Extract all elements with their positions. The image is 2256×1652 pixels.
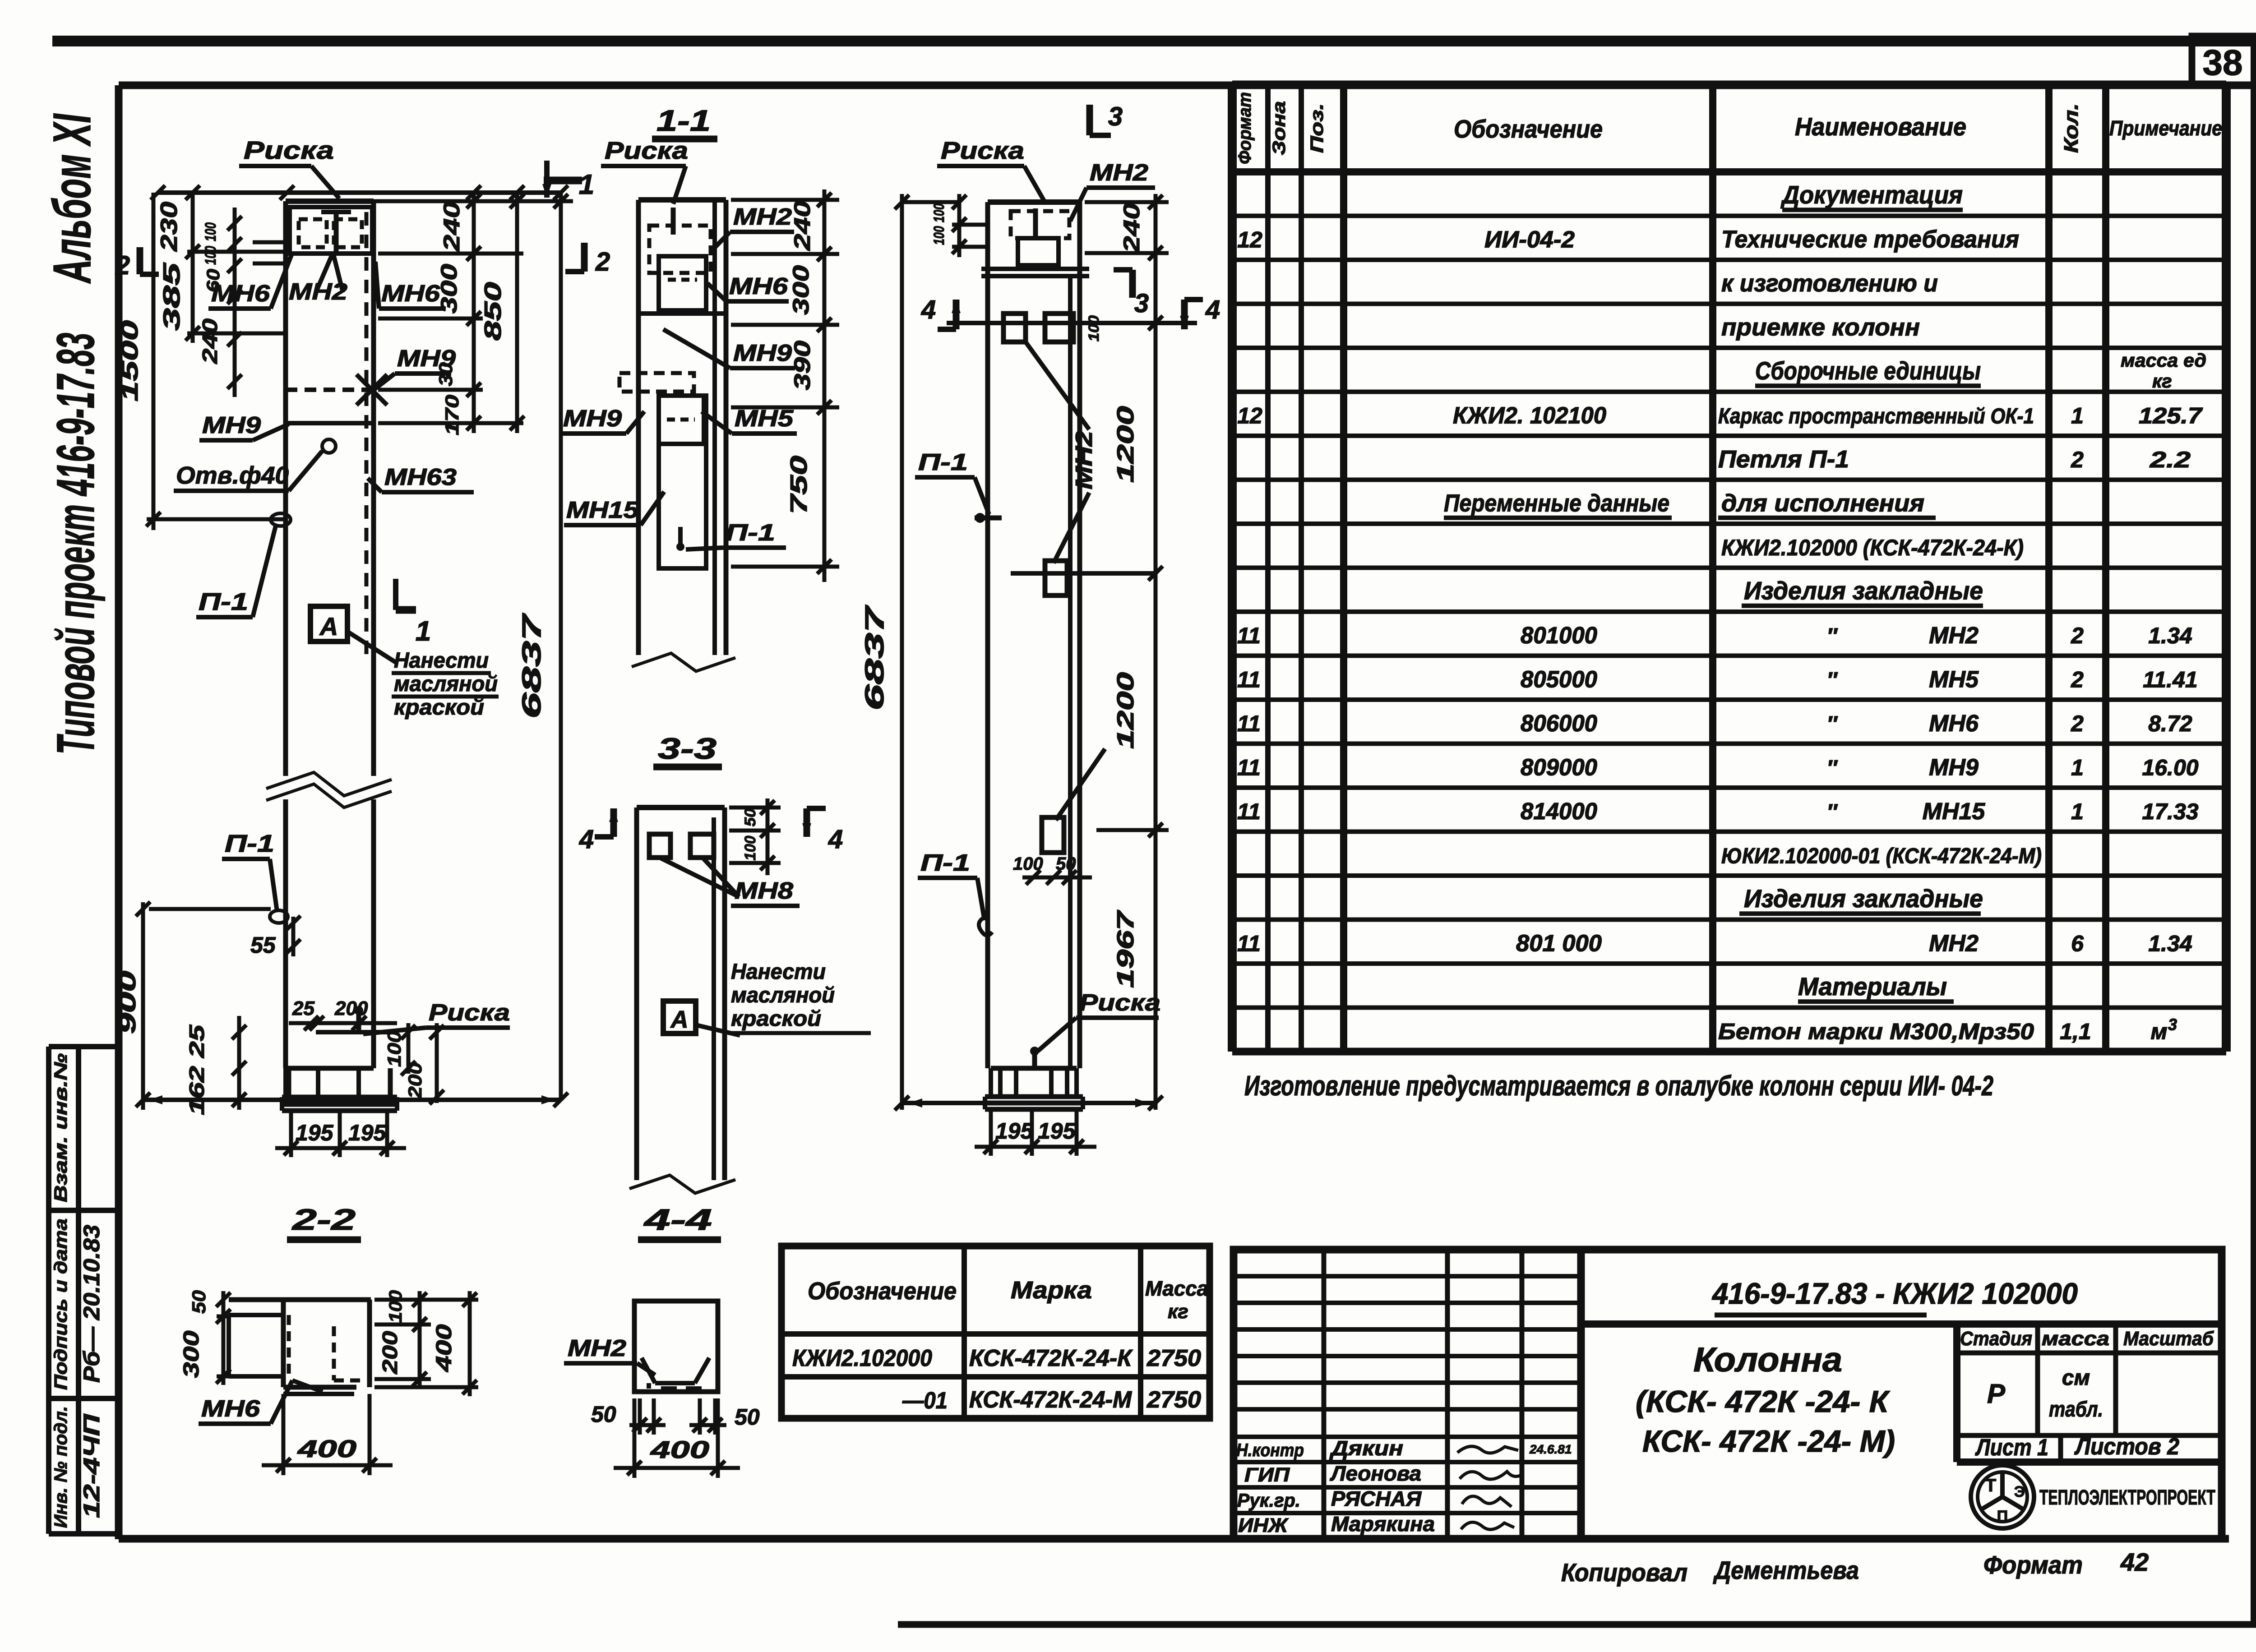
1-1 MN15 tall plate — [659, 396, 706, 568]
2-2 dim 400 bottom — [262, 1463, 393, 1467]
svg-text:П-1: П-1 — [918, 449, 968, 475]
left view: solid level line — [286, 421, 374, 425]
svg-text:100: 100 — [386, 1290, 406, 1323]
left view dim chain 900 — [141, 902, 145, 1110]
title block revision rows — [1234, 1274, 1581, 1278]
svg-text:Подпись и дата: Подпись и дата — [51, 1218, 71, 1390]
svg-text:масса: масса — [2042, 1328, 2109, 1350]
svg-text:12-4ЧП: 12-4ЧП — [79, 1414, 104, 1518]
svg-text:Дементьева: Дементьева — [1713, 1556, 1859, 1584]
svg-text:100: 100 — [202, 246, 219, 265]
svg-text:6837: 6837 — [517, 613, 546, 719]
svg-text:195: 195 — [348, 1120, 387, 1145]
left view lower loop P-1 — [270, 910, 288, 923]
svg-text:МН9: МН9 — [1929, 755, 1979, 781]
svg-text:Дякин: Дякин — [1329, 1436, 1403, 1460]
svg-text:Стадия: Стадия — [1960, 1328, 2032, 1350]
svg-text:Листов 2: Листов 2 — [2074, 1434, 2179, 1460]
svg-text:1: 1 — [579, 169, 594, 200]
left view: hole otv f40 — [322, 439, 336, 453]
1-1 level line — [638, 311, 726, 316]
right view dims 100 50 small — [1022, 876, 1092, 880]
1-1 riska T mark — [671, 208, 676, 235]
svg-text:П-1: П-1 — [726, 520, 775, 546]
svg-text:809000: 809000 — [1521, 755, 1597, 781]
svg-text:Лист 1: Лист 1 — [1975, 1435, 2048, 1461]
svg-text:масляной: масляной — [394, 672, 498, 696]
svg-text:Колонна: Колонна — [1693, 1341, 1842, 1379]
svg-text:240: 240 — [439, 202, 464, 252]
svg-text:масса ед: масса ед — [2121, 350, 2206, 371]
right view section mark 3 top — [1086, 105, 1093, 135]
right view riska T mark bottom — [1032, 1047, 1037, 1070]
marking table grid — [781, 1246, 1210, 1418]
svg-text:3: 3 — [1134, 289, 1149, 318]
svg-text:Изготовление предусматриваетс: Изготовление предусматривается в опалубк… — [1244, 1071, 1993, 1102]
svg-text:ТЕПЛОЭЛЕКТРОПРОЕКТ: ТЕПЛОЭЛЕКТРОПРОЕКТ — [2039, 1486, 2215, 1509]
1-1 P-1 tick — [678, 527, 683, 549]
svg-text:Сборочные единицы: Сборочные единицы — [1755, 356, 1981, 385]
svg-text:1200: 1200 — [1113, 672, 1139, 749]
svg-text:Рук.гр.: Рук.гр. — [1237, 1490, 1300, 1511]
svg-text:МН5: МН5 — [735, 406, 794, 432]
svg-text:Нанести: Нанести — [731, 960, 826, 984]
svg-text:см: см — [2062, 1366, 2090, 1390]
drawing frame left border — [115, 85, 123, 1539]
svg-text:200: 200 — [404, 1062, 425, 1099]
title block TEP logo — [1971, 1465, 2034, 1528]
svg-text:МН2: МН2 — [733, 204, 792, 230]
sheet bottom edge line — [898, 1621, 2256, 1628]
left view: MN2 plate dashed — [299, 219, 327, 247]
svg-text:1: 1 — [2071, 755, 2084, 780]
svg-text:Риска: Риска — [1079, 990, 1160, 1016]
svg-text:11: 11 — [1237, 931, 1261, 956]
svg-text:11: 11 — [1237, 623, 1261, 648]
svg-text:Изделия закладные: Изделия закладные — [1744, 884, 1983, 913]
3-3 section mark 4 right — [804, 808, 810, 837]
svg-text:Материалы: Материалы — [1798, 972, 1947, 1001]
svg-text:РЯСНАЯ: РЯСНАЯ — [1331, 1487, 1422, 1510]
svg-text:(КСК- 472К -24- К: (КСК- 472К -24- К — [1636, 1384, 1890, 1419]
left view section mark 2 left — [137, 247, 143, 274]
svg-text:″: ″ — [1827, 624, 1838, 648]
svg-text:6837: 6837 — [860, 605, 889, 711]
svg-text:390: 390 — [790, 341, 815, 390]
left view: top block inner lines — [290, 207, 372, 254]
svg-text:25: 25 — [292, 997, 314, 1020]
svg-text:масляной: масляной — [731, 983, 835, 1007]
spec table row lines — [1232, 214, 2226, 218]
svg-text:Наименование: Наименование — [1795, 112, 1966, 141]
svg-text:КСК- 472К -24- М): КСК- 472К -24- М) — [1642, 1424, 1895, 1458]
svg-text:55: 55 — [250, 932, 276, 958]
svg-text:3: 3 — [1108, 102, 1123, 131]
svg-text:3-3: 3-3 — [658, 732, 717, 765]
svg-text:Т: Т — [1985, 1476, 1996, 1495]
2-2 dashed inner lines — [287, 1315, 291, 1376]
svg-text:МН8: МН8 — [735, 878, 793, 904]
2-2 outline — [229, 1297, 371, 1302]
spec table outer grid — [1228, 84, 1237, 1052]
right view top plates — [1011, 211, 1069, 238]
svg-text:2: 2 — [2071, 711, 2084, 736]
svg-text:для исполнения: для исполнения — [1721, 490, 1924, 517]
left view dim chain 230/385 — [191, 193, 195, 343]
left view footing dims 25 200 — [289, 1021, 397, 1025]
svg-text:Масштаб: Масштаб — [2123, 1328, 2214, 1350]
left view footing dim 195 195 — [275, 1146, 406, 1150]
1-1 column outline — [636, 200, 641, 655]
svg-text:100: 100 — [742, 835, 759, 860]
left view: break mark — [266, 772, 392, 796]
3-3 A mark box — [663, 1001, 696, 1034]
left view dim chain 100 100 60 240 — [233, 208, 237, 397]
2-2 dim 50 left — [222, 1291, 226, 1324]
svg-text:400: 400 — [650, 1436, 709, 1463]
svg-text:11: 11 — [1237, 799, 1261, 824]
left view: column outline — [283, 201, 288, 776]
svg-text:Риска: Риска — [941, 137, 1024, 164]
svg-text:″: ″ — [1827, 800, 1838, 824]
svg-text:4-4: 4-4 — [643, 1203, 712, 1236]
right view bottom master dim line — [902, 1101, 1156, 1105]
svg-text:1200: 1200 — [1113, 406, 1139, 483]
svg-text:ИНЖ: ИНЖ — [1238, 1514, 1289, 1537]
left view dim chain 1500 — [152, 193, 156, 530]
svg-text:2750: 2750 — [1146, 1345, 1201, 1371]
svg-text:Риска: Риска — [244, 136, 334, 164]
svg-text:100: 100 — [384, 1031, 405, 1067]
right view middle square 2 — [1042, 817, 1064, 853]
svg-text:240: 240 — [198, 318, 222, 364]
svg-text:11.41: 11.41 — [2143, 667, 2197, 692]
2-2 dim 300 left — [222, 1324, 226, 1385]
svg-text:Типовой проект 416-9-17.83: Типовой проект 416-9-17.83 — [46, 333, 106, 755]
svg-text:КЖИ2.102000: КЖИ2.102000 — [792, 1345, 932, 1371]
3-3 break mark — [629, 1175, 735, 1193]
svg-text:4: 4 — [828, 825, 843, 854]
right view top master extension — [902, 200, 959, 204]
svg-text:Переменные данные: Переменные данные — [1444, 490, 1669, 517]
left view: section mark 1 top — [544, 177, 582, 185]
svg-text:12: 12 — [1237, 403, 1262, 429]
right view section mark 3 lower — [1129, 270, 1136, 298]
svg-text:1967: 1967 — [1113, 910, 1139, 988]
3-3 section mark 4 left — [610, 808, 617, 837]
svg-text:50: 50 — [742, 808, 759, 826]
svg-text:МН6: МН6 — [1929, 711, 1979, 737]
right view footing — [991, 1066, 1077, 1071]
svg-text:Бетон марки М300,Мрз50: Бетон марки М300,Мрз50 — [1718, 1019, 2034, 1044]
svg-text:Обозначение: Обозначение — [1454, 115, 1603, 143]
title block vertical lines left part — [1322, 1250, 1327, 1539]
left view dim chain 162 25 — [237, 1016, 241, 1110]
svg-text:Рб— 20.10.83: Рб— 20.10.83 — [79, 1225, 104, 1383]
svg-text:Альбом XI: Альбом XI — [42, 113, 102, 284]
svg-text:11: 11 — [1237, 755, 1261, 780]
title block stadia massa masshtab section — [1953, 1324, 1960, 1462]
right view left dim chain 6837 — [900, 194, 904, 1110]
svg-text:195: 195 — [296, 1120, 334, 1145]
svg-text:Кол.: Кол. — [2060, 103, 2082, 153]
svg-text:П-1: П-1 — [225, 830, 274, 857]
svg-text:МН2: МН2 — [568, 1335, 626, 1361]
svg-text:Обозначение: Обозначение — [808, 1278, 957, 1305]
1-1 section mark 2 flag — [581, 243, 588, 272]
svg-text:200: 200 — [334, 997, 368, 1020]
svg-text:к изготовлению и: к изготовлению и — [1721, 270, 1938, 297]
svg-text:195: 195 — [1038, 1118, 1076, 1144]
svg-text:МН6: МН6 — [729, 273, 788, 300]
svg-text:1500: 1500 — [117, 320, 143, 401]
1-1 MN6 plate — [659, 256, 706, 310]
svg-text:100: 100 — [1013, 854, 1043, 874]
svg-text:24.6.81: 24.6.81 — [1529, 1442, 1572, 1456]
right view section 4-4 cut line — [947, 321, 1197, 325]
svg-text:Леонова: Леонова — [1330, 1462, 1421, 1485]
left view: MN9 dashed level — [286, 388, 374, 392]
svg-text:МН63: МН63 — [384, 464, 457, 490]
svg-text:кг: кг — [2152, 370, 2172, 392]
svg-text:П-1: П-1 — [920, 850, 970, 876]
svg-text:4: 4 — [1205, 295, 1220, 324]
svg-text:2: 2 — [2071, 447, 2084, 472]
svg-text:Копировал: Копировал — [1561, 1558, 1687, 1587]
svg-text:Р: Р — [1987, 1379, 2006, 1409]
svg-text:100: 100 — [931, 226, 947, 245]
right view section mark 4 left — [953, 300, 960, 329]
svg-text:Инв. № подл.: Инв. № подл. — [51, 1406, 71, 1528]
svg-text:11: 11 — [1237, 667, 1261, 692]
svg-text:416-9-17.83 - КЖИ2 102000: 416-9-17.83 - КЖИ2 102000 — [1711, 1277, 2078, 1310]
4-4 dim 400 bottom — [614, 1466, 740, 1470]
svg-text:801000: 801000 — [1521, 623, 1597, 649]
svg-text:30: 30 — [435, 363, 456, 386]
svg-text:МН6: МН6 — [381, 281, 440, 307]
3-3 dim chain 50/100 — [766, 798, 770, 875]
svg-text:А: А — [670, 1006, 689, 1033]
3-3 embedded squares — [649, 834, 670, 858]
svg-text:17.33: 17.33 — [2142, 799, 2198, 824]
svg-text:850: 850 — [480, 282, 506, 341]
svg-text:38: 38 — [2203, 42, 2243, 83]
svg-text:Формат: Формат — [1235, 92, 1255, 164]
svg-text:125.7: 125.7 — [2139, 403, 2203, 429]
svg-text:ГИП: ГИП — [1244, 1464, 1290, 1486]
svg-text:4: 4 — [921, 295, 936, 324]
svg-text:100: 100 — [202, 222, 219, 241]
right view squares at 4-4 level — [1003, 314, 1026, 342]
svg-text:50: 50 — [735, 1404, 760, 1430]
svg-text:краской: краской — [394, 696, 484, 720]
left view: riska T mark top — [334, 212, 339, 253]
svg-text:195: 195 — [995, 1118, 1034, 1144]
svg-text:МН6: МН6 — [201, 1396, 260, 1422]
svg-text:814000: 814000 — [1521, 798, 1597, 825]
left view overall dim chain 6837 — [559, 193, 563, 1100]
svg-text:МН9: МН9 — [733, 340, 792, 366]
left view: section mark 1 bottom — [393, 579, 398, 610]
svg-text:900: 900 — [115, 971, 141, 1034]
svg-text:2: 2 — [2071, 623, 2084, 648]
svg-text:60: 60 — [203, 269, 223, 292]
left view top master dimension line — [158, 190, 561, 195]
svg-text:Отв.ф40: Отв.ф40 — [176, 462, 289, 489]
1-1 MN9 dashed band — [619, 373, 694, 392]
svg-text:801 000: 801 000 — [1516, 931, 1602, 957]
left view riska T mark bottom — [356, 1007, 361, 1032]
left view: level line 100-100 — [253, 240, 286, 245]
right view right dim chain 1200/1200/1967 — [1154, 262, 1158, 1110]
4-4 outline — [634, 1301, 718, 1392]
svg-text:2: 2 — [2071, 667, 2084, 692]
svg-text:приемке колонн: приемке колонн — [1721, 314, 1920, 341]
svg-text:11: 11 — [1237, 711, 1261, 736]
svg-text:42: 42 — [2120, 1548, 2149, 1576]
svg-text:1: 1 — [2071, 799, 2084, 824]
svg-text:400: 400 — [432, 1324, 456, 1372]
svg-text:Риска: Риска — [429, 1000, 510, 1026]
svg-text:″: ″ — [1827, 757, 1838, 780]
svg-text:Н.контр: Н.контр — [1236, 1440, 1304, 1460]
svg-text:—01: —01 — [902, 1388, 948, 1414]
svg-text:12: 12 — [1237, 227, 1262, 253]
1-1 MN5 plate — [659, 396, 704, 444]
svg-text:МН9: МН9 — [563, 406, 622, 432]
svg-text:3: 3 — [2168, 1015, 2177, 1034]
left view footing outline — [286, 1066, 374, 1071]
svg-text:МН5: МН5 — [1929, 667, 1979, 693]
svg-text:300: 300 — [180, 1330, 203, 1378]
svg-text:230: 230 — [156, 202, 182, 252]
drawing frame top border — [119, 82, 2256, 89]
svg-text:Э: Э — [2014, 1483, 2025, 1500]
svg-text:100: 100 — [931, 203, 947, 222]
svg-text:4: 4 — [579, 825, 594, 854]
svg-text:Петля П-1: Петля П-1 — [1718, 446, 1849, 473]
svg-text:Изделия закладные: Изделия закладные — [1744, 577, 1983, 605]
svg-text:100: 100 — [1086, 315, 1102, 341]
svg-text:1,1: 1,1 — [2060, 1019, 2091, 1044]
svg-text:300: 300 — [436, 264, 462, 314]
svg-text:П-1: П-1 — [199, 588, 248, 615]
svg-text:1-1: 1-1 — [656, 104, 711, 137]
svg-text:КЖИ2. 102100: КЖИ2. 102100 — [1453, 403, 1606, 429]
svg-text:Риска: Риска — [605, 137, 688, 164]
right view leader to square 2 — [1056, 749, 1105, 820]
svg-text:МН15: МН15 — [566, 497, 639, 523]
svg-text:806000: 806000 — [1521, 711, 1597, 737]
svg-text:1: 1 — [2071, 403, 2084, 429]
left view right dim chain 240/300/30/170 — [472, 193, 476, 433]
svg-text:50: 50 — [1056, 854, 1076, 874]
left view: inner dashed edge — [365, 212, 369, 654]
svg-text:табл.: табл. — [2049, 1398, 2103, 1421]
svg-text:Примечание: Примечание — [2109, 116, 2222, 140]
svg-text:2.2: 2.2 — [2150, 447, 2191, 472]
svg-text:805000: 805000 — [1521, 667, 1597, 693]
2-2 right dims 100 200 400 — [418, 1291, 422, 1387]
svg-text:″: ″ — [1827, 712, 1838, 736]
svg-text:Взам. инв.№: Взам. инв.№ — [51, 1053, 71, 1202]
1-1 dim chain 240/300/390/750 — [823, 189, 827, 582]
svg-text:2: 2 — [595, 247, 610, 277]
1-1 break mark bottom — [632, 653, 735, 671]
svg-text:Поз.: Поз. — [1307, 103, 1327, 153]
right view P-1 tick upper — [975, 516, 1002, 521]
svg-text:Марка: Марка — [1011, 1277, 1092, 1304]
svg-text:″: ″ — [1827, 669, 1838, 692]
svg-text:50: 50 — [591, 1402, 616, 1427]
svg-text:МН2: МН2 — [1929, 623, 1979, 649]
right view section mark 4 right — [1181, 300, 1188, 329]
left view footing riska level line — [316, 1030, 395, 1034]
svg-text:МН9: МН9 — [202, 412, 261, 438]
svg-text:2750: 2750 — [1146, 1387, 1201, 1413]
right view column outline — [985, 202, 990, 1068]
3-3 column outline — [634, 808, 639, 1180]
svg-text:Зона: Зона — [1269, 101, 1289, 155]
svg-text:ЮКИ2.102000-01 (КСК-472К-24-М): ЮКИ2.102000-01 (КСК-472К-24-М) — [1721, 844, 2042, 868]
svg-text:Технические требования: Технические требования — [1721, 226, 2019, 253]
drawing frame bottom border — [119, 1535, 2229, 1543]
svg-text:Масса: Масса — [1145, 1277, 1208, 1300]
svg-text:КСК-472К-24-К: КСК-472К-24-К — [969, 1345, 1133, 1371]
svg-text:240: 240 — [790, 201, 815, 251]
svg-text:2: 2 — [115, 251, 130, 280]
svg-text:Каркас пространственный ОК-1: Каркас пространственный ОК-1 — [1718, 405, 2034, 429]
left view right dims 100 200 — [407, 1023, 411, 1074]
title block signatures — [1457, 1446, 1518, 1453]
right view riska T mark top — [1033, 208, 1038, 237]
svg-text:50: 50 — [188, 1290, 209, 1314]
svg-text:6: 6 — [2071, 931, 2084, 956]
svg-text:8.72: 8.72 — [2148, 711, 2192, 736]
svg-text:170: 170 — [441, 395, 462, 435]
svg-text:кг: кг — [1168, 1301, 1188, 1323]
title block outer border — [1234, 1250, 2222, 1539]
right view middle square 1 — [1045, 561, 1067, 595]
svg-text:200: 200 — [378, 1331, 402, 1375]
svg-text:ИИ-04-2: ИИ-04-2 — [1484, 227, 1575, 253]
4-4 dim 50 left — [638, 1398, 642, 1435]
right view top dim 100 100 — [957, 194, 962, 257]
left view: loop P-1 upper — [271, 513, 291, 526]
right view P-1 loop lower — [979, 916, 992, 936]
svg-text:МН2: МН2 — [1929, 931, 1979, 957]
right view dim 240 top — [1154, 194, 1158, 262]
svg-text:1: 1 — [416, 616, 431, 647]
svg-text:2-2: 2-2 — [291, 1203, 356, 1236]
svg-text:750: 750 — [786, 456, 812, 514]
svg-text:МН2: МН2 — [1090, 160, 1148, 186]
4-4 inner plate trapezoid — [642, 1358, 655, 1383]
svg-text:385: 385 — [159, 262, 185, 331]
left view dim chain 850 — [515, 193, 519, 433]
svg-text:Документация: Документация — [1780, 180, 1963, 209]
title block designation row — [1581, 1320, 2222, 1328]
left view bottom master dim line — [143, 1098, 561, 1102]
right view step lines — [981, 267, 1089, 271]
page number box 38 — [2192, 36, 2254, 86]
svg-text:КЖИ2.102000 (КСК-472К-24-К): КЖИ2.102000 (КСК-472К-24-К) — [1721, 535, 2024, 560]
svg-text:Марякина: Марякина — [1331, 1512, 1435, 1536]
right view leader MN2 diagonal — [1026, 342, 1089, 429]
svg-text:16.00: 16.00 — [2142, 755, 2198, 780]
sheet top border line — [52, 36, 2256, 46]
svg-text:МН15: МН15 — [1923, 798, 1986, 825]
